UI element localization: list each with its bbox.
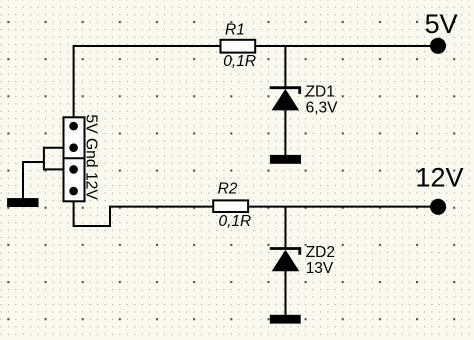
connector J1 pin 1 xyxy=(69,122,78,131)
wire net12V branch to ZD2 xyxy=(285,207,287,248)
svg-text:5V Gnd 12V: 5V Gnd 12V xyxy=(82,114,99,200)
wire pin2 stub xyxy=(44,147,74,149)
wire net12V pin4 zigzag xyxy=(74,191,213,226)
terminal 12V xyxy=(430,199,446,215)
connector J1 body xyxy=(63,117,86,201)
ground (ZD1) xyxy=(270,155,301,164)
zener diode ZD2 xyxy=(270,249,300,272)
wire net12V R2 to terminal xyxy=(249,206,438,208)
resistor R1 xyxy=(221,40,256,53)
svg-text:0,1R: 0,1R xyxy=(223,53,256,70)
wire gnd tie vertical xyxy=(43,147,45,171)
resistor R2 xyxy=(213,200,248,212)
wire pin3 stub xyxy=(44,168,74,170)
ground (ZD2) xyxy=(270,315,301,324)
svg-text:6,3V: 6,3V xyxy=(306,99,339,116)
svg-text:0,1R: 0,1R xyxy=(219,213,252,230)
zener diode ZD1 xyxy=(270,88,300,111)
wire net5V branch to ZD1 xyxy=(284,46,286,87)
wire ZD1 anode to ground xyxy=(284,110,286,156)
svg-text:R1: R1 xyxy=(225,21,245,38)
wire net5V pin1 to R1 xyxy=(74,46,220,126)
connector J1 pin 2 xyxy=(69,143,78,152)
svg-text:13V: 13V xyxy=(306,260,334,277)
connector J1 pin 4 xyxy=(69,187,78,196)
ground (left) xyxy=(7,198,38,207)
wire ZD2 anode to ground xyxy=(285,271,287,315)
svg-text:5V: 5V xyxy=(425,9,458,39)
connector J1 pin 3 xyxy=(69,165,78,174)
wire net5V R1 to terminal xyxy=(256,45,438,47)
svg-text:ZD1: ZD1 xyxy=(306,83,335,100)
terminal 5V xyxy=(430,38,446,54)
svg-text:R2: R2 xyxy=(218,181,238,198)
svg-text:12V: 12V xyxy=(416,163,464,193)
svg-text:ZD2: ZD2 xyxy=(306,244,335,261)
wire gnd branch xyxy=(23,162,44,199)
